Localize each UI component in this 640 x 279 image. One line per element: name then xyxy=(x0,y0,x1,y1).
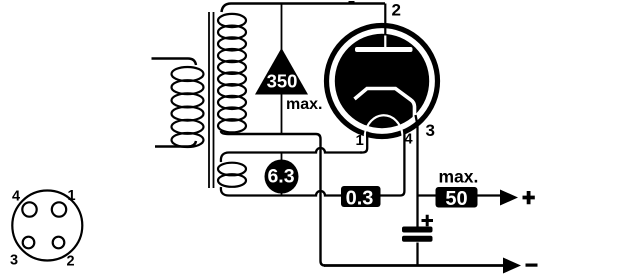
svg-text:2: 2 xyxy=(392,1,401,20)
svg-text:50: 50 xyxy=(445,188,467,210)
wire: HV secondary top lead to anode (top rail) xyxy=(222,4,386,13)
svg-text:3: 3 xyxy=(10,253,18,269)
svg-text:1: 1 xyxy=(356,132,364,149)
transformer T1 primary bottom lead xyxy=(155,141,196,147)
rectifier tube V1 inner disc xyxy=(335,34,429,128)
voltage indicator 6.3V circle xyxy=(265,160,299,194)
wire: capacitor to negative rail xyxy=(416,243,418,267)
svg-text:4: 4 xyxy=(12,189,20,205)
heater filament arc xyxy=(365,115,403,139)
svg-text:6.3: 6.3 xyxy=(267,166,294,188)
- output arrow xyxy=(503,258,521,274)
transformer T1 HV secondary winding xyxy=(218,14,246,133)
rectifier tube V1 envelope xyxy=(327,26,438,137)
voltage indicator 350V triangle xyxy=(255,48,308,95)
+ output label xyxy=(523,191,535,204)
wire joint blemish on top rail xyxy=(349,1,355,4)
wire: heater winding bottom lead to resistor 0.3 (hops over HV return) xyxy=(221,187,341,196)
anode plate bar xyxy=(355,47,413,52)
negative rail wire xyxy=(324,264,504,267)
socket hole pin 1 xyxy=(52,202,66,216)
svg-text:0.3: 0.3 xyxy=(346,188,374,210)
svg-text:1: 1 xyxy=(68,188,76,204)
transformer T1 core xyxy=(209,12,214,188)
svg-text:350: 350 xyxy=(267,71,298,92)
capacitor C1 top plate xyxy=(402,227,433,233)
socket hole pin 2 xyxy=(53,237,65,249)
svg-text:3: 3 xyxy=(426,121,435,140)
transformer T1 primary winding xyxy=(172,67,204,147)
cathode xyxy=(355,89,415,118)
svg-text:max.: max. xyxy=(439,167,479,187)
socket hole pin 4 xyxy=(22,202,36,216)
wire: pin 3 node to fuse max 50 xyxy=(418,194,436,196)
resistor 0.3 (heater series) body xyxy=(341,186,381,207)
wire: fuse to + output xyxy=(478,194,502,196)
socket hole pin 3 xyxy=(23,237,35,249)
svg-text:max.: max. xyxy=(286,96,322,113)
svg-text:2: 2 xyxy=(67,254,75,270)
socket base view circle xyxy=(12,191,82,261)
wire: anode drop from top rail into tube xyxy=(384,4,386,37)
wire: HV secondary bottom lead down to negative rail xyxy=(221,131,325,266)
transformer T1 primary top lead xyxy=(152,59,197,66)
transformer T1 heater winding 6.3V xyxy=(218,163,246,187)
wire: tube pin 1 lead xyxy=(360,132,367,153)
svg-text:4: 4 xyxy=(405,132,413,148)
voltage indicator 6.3V line xyxy=(281,153,283,196)
+ output arrow xyxy=(500,190,518,206)
voltage indicator 350V line xyxy=(281,4,283,135)
- output label xyxy=(526,264,538,267)
fuse max 50 body xyxy=(436,187,478,208)
anode riser (white, inside tube) xyxy=(384,36,386,49)
capacitor C1 bottom plate xyxy=(402,236,433,242)
wire: heater winding top lead to tube pin 1 (hops over HV return) xyxy=(221,148,362,162)
wire: pin 3 cathode lead down xyxy=(416,115,418,227)
wire: pin 4 down to resistor 0.3 xyxy=(381,131,405,196)
capacitor C1 plus marking xyxy=(422,215,434,226)
